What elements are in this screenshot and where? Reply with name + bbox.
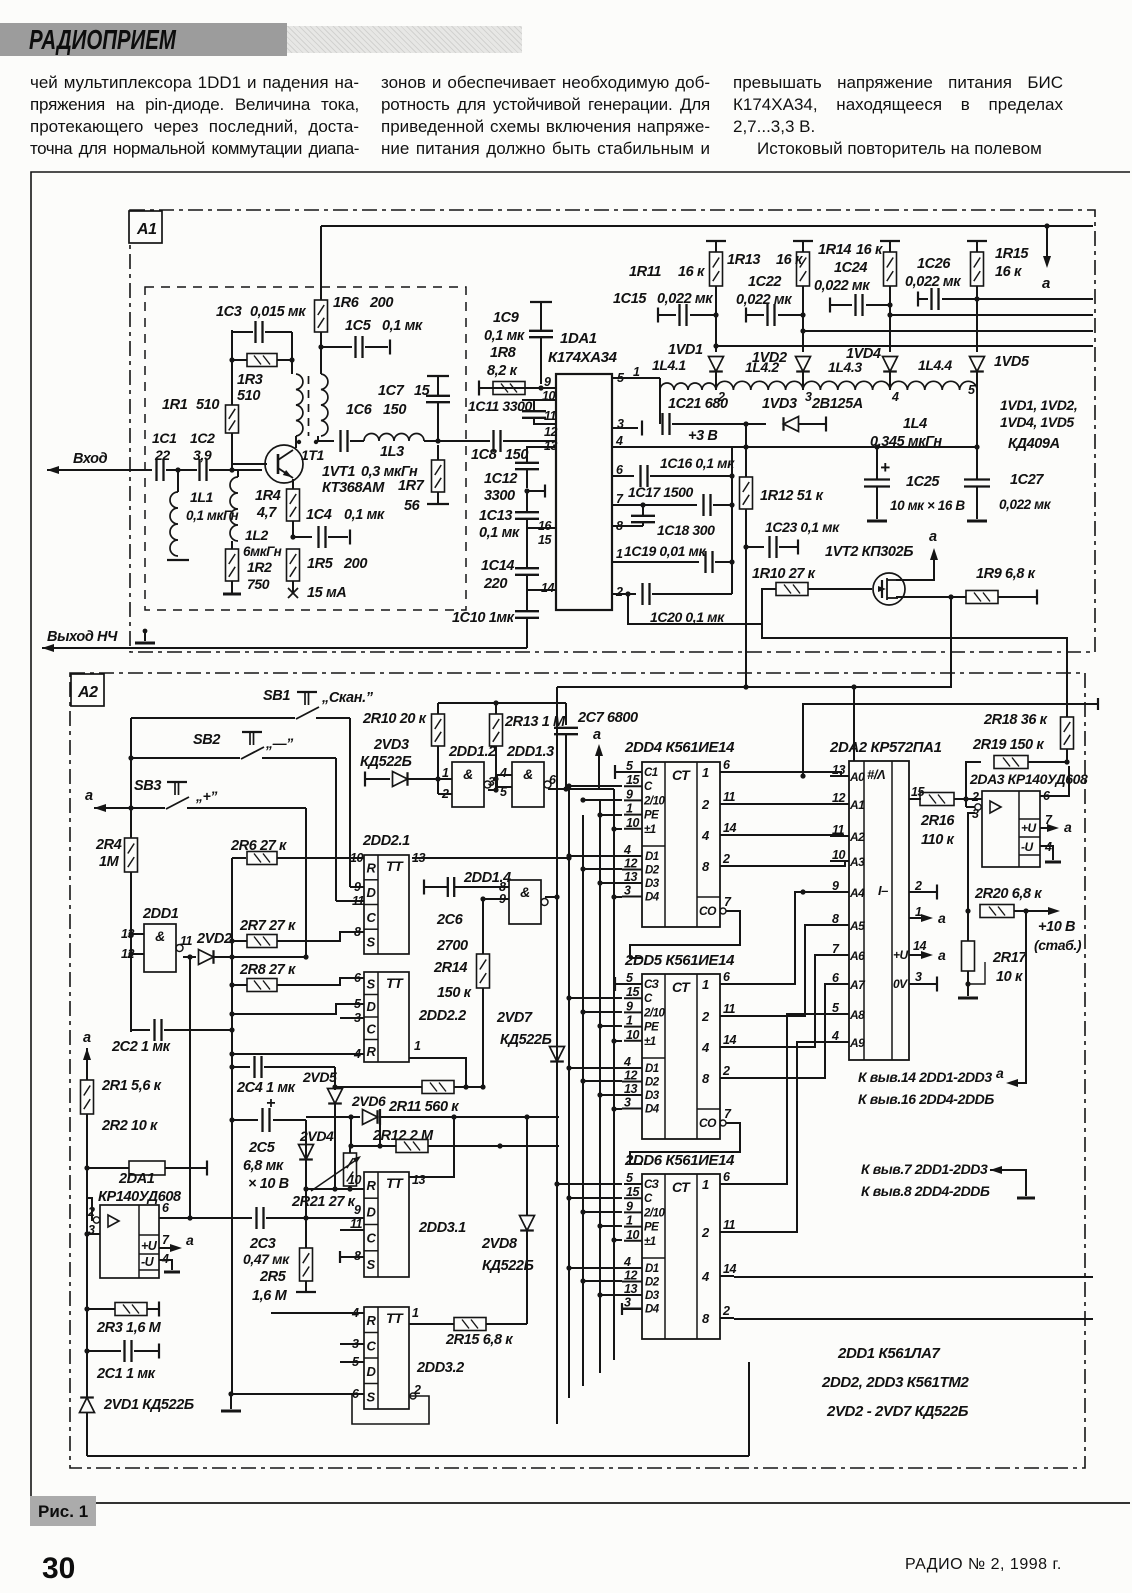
svg-text:1VD1: 1VD1 bbox=[668, 342, 703, 358]
svg-text:4: 4 bbox=[623, 1255, 631, 1269]
svg-text:С1: С1 bbox=[644, 767, 658, 779]
svg-text:СТ: СТ bbox=[672, 979, 691, 995]
wire y=704 to right edge bbox=[803, 704, 1098, 776]
svg-text:&: & bbox=[463, 766, 473, 782]
right varactor column down to 1C27 bbox=[976, 390, 978, 447]
svg-text:12: 12 bbox=[624, 1069, 637, 1083]
op amp 2DA1 output wire 2C3 bbox=[159, 1217, 252, 1219]
svg-text:1: 1 bbox=[412, 1306, 419, 1320]
svg-text:4: 4 bbox=[831, 1029, 839, 1043]
capacitor 1C25 10мк x 16В electrolytic bbox=[874, 444, 879, 449]
svg-text:А1: А1 bbox=[136, 221, 157, 238]
svg-text:9: 9 bbox=[626, 1199, 633, 1213]
page number bbox=[42, 1552, 75, 1586]
svg-text:10: 10 bbox=[350, 851, 363, 865]
left vertical bus columns to counters bbox=[556, 687, 558, 1424]
svg-text:К174ХА34: К174ХА34 bbox=[548, 349, 618, 366]
svg-text:1С8: 1С8 bbox=[471, 447, 498, 463]
svg-text:0,1 мк: 0,1 мк bbox=[484, 328, 525, 344]
svg-text:2R16: 2R16 bbox=[920, 813, 955, 829]
svg-text:1L4: 1L4 bbox=[903, 416, 927, 432]
svg-text:D: D bbox=[367, 1204, 377, 1219]
svg-text:±1: ±1 bbox=[644, 1236, 656, 1248]
svg-text:РЕ: РЕ bbox=[644, 1222, 659, 1234]
svg-text:2: 2 bbox=[413, 1383, 421, 1397]
svg-text:S: S bbox=[367, 976, 376, 991]
svg-text:1VD4, 1VD5: 1VD4, 1VD5 bbox=[1000, 414, 1074, 430]
svg-text:C: C bbox=[367, 1021, 377, 1036]
svg-text:0,1 мк: 0,1 мк bbox=[382, 318, 423, 334]
svg-text:8: 8 bbox=[702, 1311, 710, 1326]
svg-text:(стаб.): (стаб.) bbox=[1034, 937, 1082, 953]
svg-text:0,47 мк: 0,47 мк bbox=[243, 1251, 290, 1267]
svg-text:0V: 0V bbox=[893, 977, 908, 991]
svg-text:1R4: 1R4 bbox=[255, 488, 281, 504]
svg-text:a: a bbox=[1042, 275, 1050, 292]
svg-text:11: 11 bbox=[723, 1218, 736, 1232]
capacitor 1C14 220 bbox=[526, 528, 528, 568]
resistor 2R16 110к bbox=[920, 793, 954, 806]
svg-text:2R5: 2R5 bbox=[259, 1269, 287, 1285]
svg-text:С: С bbox=[644, 993, 653, 1005]
svg-text:ТТ: ТТ bbox=[386, 1175, 404, 1191]
decoupling bus vertical bbox=[731, 447, 733, 594]
svg-text:+: + bbox=[880, 458, 890, 477]
svg-text:D: D bbox=[367, 1364, 377, 1379]
svg-text:2С6: 2С6 bbox=[436, 912, 464, 928]
svg-text:С: С bbox=[644, 781, 653, 793]
inductor 1L3 bbox=[364, 434, 424, 441]
svg-text:13: 13 bbox=[624, 870, 637, 884]
svg-text:1R7: 1R7 bbox=[398, 478, 425, 494]
svg-text:D3: D3 bbox=[645, 878, 660, 890]
svg-text:11: 11 bbox=[544, 409, 557, 423]
svg-text:SB2: SB2 bbox=[193, 732, 220, 748]
svg-text:1С27: 1С27 bbox=[1010, 472, 1044, 488]
svg-text:2: 2 bbox=[914, 879, 922, 893]
svg-text:1С14: 1С14 bbox=[481, 558, 514, 574]
svg-text:2: 2 bbox=[722, 1304, 730, 1318]
svg-text:16 к: 16 к bbox=[995, 264, 1022, 280]
svg-text:4: 4 bbox=[891, 390, 899, 404]
emitter chain 1R4 4,7 bbox=[292, 479, 294, 489]
svg-text:2: 2 bbox=[701, 1009, 710, 1024]
drain wire with a arrow bbox=[896, 552, 934, 580]
svg-text:2R19 150 к: 2R19 150 к bbox=[972, 737, 1044, 753]
svg-text:2VD5: 2VD5 bbox=[302, 1069, 337, 1085]
svg-text:СТ: СТ bbox=[672, 767, 691, 783]
svg-text:1С5: 1С5 bbox=[345, 318, 372, 334]
collector coupling 1C6 150 bbox=[318, 436, 334, 441]
svg-text:6: 6 bbox=[723, 758, 731, 772]
svg-text:3: 3 bbox=[915, 970, 922, 984]
svg-text:7: 7 bbox=[162, 1233, 170, 1247]
svg-text:15: 15 bbox=[626, 773, 640, 787]
svg-text:56: 56 bbox=[404, 498, 421, 514]
svg-text:#/Λ: #/Λ bbox=[867, 767, 885, 782]
svg-text:1DA1: 1DA1 bbox=[560, 330, 597, 347]
svg-text:D3: D3 bbox=[645, 1090, 660, 1102]
svg-text:1С25: 1С25 bbox=[906, 474, 940, 490]
svg-text:1: 1 bbox=[442, 766, 449, 780]
inductor 1L1 bbox=[177, 470, 179, 492]
resistor 1R6 200 bbox=[320, 226, 322, 300]
capacitor 1C1 bbox=[155, 459, 157, 481]
svg-text:11: 11 bbox=[352, 894, 365, 908]
svg-text:0,022 мк: 0,022 мк bbox=[999, 497, 1052, 512]
svg-text:1: 1 bbox=[626, 802, 633, 816]
svg-text:1L4.1: 1L4.1 bbox=[652, 357, 686, 373]
svg-text:&: & bbox=[523, 766, 533, 782]
svg-text:1L3: 1L3 bbox=[380, 444, 404, 460]
svg-text:+U: +U bbox=[141, 1239, 158, 1253]
svg-text:14: 14 bbox=[723, 1262, 736, 1276]
svg-text:2: 2 bbox=[701, 1225, 710, 1240]
svg-text:1С15: 1С15 bbox=[613, 291, 647, 307]
svg-text:750: 750 bbox=[247, 576, 270, 592]
resistor 2R4 1М bbox=[125, 838, 138, 872]
svg-text:ТТ: ТТ bbox=[386, 1310, 404, 1326]
svg-text:C: C bbox=[367, 1231, 377, 1246]
svg-text:+10 В: +10 В bbox=[1038, 919, 1075, 935]
2DD1.4 output to bus bbox=[545, 896, 557, 898]
CO cascade 2DD5 to 2DD6 bbox=[630, 1123, 740, 1164]
band bus wires bbox=[713, 343, 718, 348]
svg-text:0,022 мк: 0,022 мк bbox=[814, 278, 870, 294]
svg-text:8: 8 bbox=[354, 925, 361, 939]
svg-text:16 к: 16 к bbox=[776, 252, 803, 268]
svg-text:10: 10 bbox=[626, 1028, 639, 1042]
svg-text:16 к: 16 к bbox=[678, 264, 705, 280]
resistor 1R12 51к bbox=[745, 447, 747, 477]
svg-text:2R12 2 М: 2R12 2 М bbox=[372, 1128, 434, 1144]
svg-text:D4: D4 bbox=[645, 1104, 660, 1116]
svg-text:D2: D2 bbox=[645, 865, 660, 877]
svg-text:9: 9 bbox=[354, 880, 361, 894]
svg-text:1С20 0,1 мк: 1С20 0,1 мк bbox=[650, 609, 725, 625]
svg-text:СТ: СТ bbox=[672, 1179, 691, 1195]
svg-text:6,8 мк: 6,8 мк bbox=[243, 1158, 284, 1174]
svg-text:15: 15 bbox=[626, 985, 640, 999]
svg-text:1R2: 1R2 bbox=[247, 559, 272, 575]
svg-text:150 к: 150 к bbox=[437, 985, 472, 1001]
svg-text:9: 9 bbox=[354, 1203, 361, 1217]
svg-text:1L2: 1L2 bbox=[245, 527, 269, 543]
svg-text:2DA1: 2DA1 bbox=[118, 1171, 155, 1187]
svg-text:6: 6 bbox=[723, 970, 731, 984]
op-amp feedback via 2R19 bbox=[966, 762, 981, 807]
svg-text:4: 4 bbox=[701, 1269, 710, 1284]
svg-text:D1: D1 bbox=[645, 1263, 659, 1275]
svg-text:10: 10 bbox=[626, 1228, 639, 1242]
svg-text:1R9 6,8 к: 1R9 6,8 к bbox=[976, 566, 1036, 582]
svg-text:8: 8 bbox=[702, 859, 710, 874]
svg-text:15: 15 bbox=[414, 383, 431, 399]
svg-text:КР140УД608: КР140УД608 bbox=[98, 1189, 182, 1205]
svg-text:R: R bbox=[367, 1313, 377, 1328]
Рис. 1 label bbox=[30, 1496, 96, 1526]
svg-text:1R8: 1R8 bbox=[490, 345, 517, 361]
svg-text:10: 10 bbox=[832, 848, 845, 862]
svg-text:1: 1 bbox=[414, 1039, 421, 1053]
svg-text:0,1 мк: 0,1 мк bbox=[479, 525, 520, 541]
2DD6 long output wires right bbox=[734, 1276, 1093, 1278]
svg-text:1С12: 1С12 bbox=[484, 471, 517, 487]
svg-text:0,022 мк: 0,022 мк bbox=[736, 292, 792, 308]
wire y=687 across A2 top bbox=[557, 686, 951, 688]
svg-text:I–: I– bbox=[878, 883, 888, 898]
svg-text:К выв.16 2DD4-2DDБ: К выв.16 2DD4-2DDБ bbox=[858, 1091, 994, 1107]
svg-text:0,1 мк: 0,1 мк bbox=[344, 507, 385, 523]
svg-text:1С6: 1С6 bbox=[346, 402, 373, 418]
svg-text:SB1: SB1 bbox=[263, 688, 290, 704]
svg-text:А3: А3 bbox=[849, 855, 865, 869]
svg-text:a: a bbox=[929, 529, 937, 545]
svg-text:А7: А7 bbox=[849, 978, 866, 992]
svg-text:1С3: 1С3 bbox=[216, 304, 242, 320]
SB1 wire down to 2DD2.1 D bbox=[349, 718, 351, 887]
transistor 1VT1 КТ368АМ bbox=[264, 464, 266, 470]
resistor 1R14 bbox=[880, 240, 900, 242]
svg-text:2R18 36 к: 2R18 36 к bbox=[983, 712, 1048, 728]
svg-text:А2: А2 bbox=[849, 830, 865, 844]
counter 2DD4 left stubs bbox=[569, 785, 622, 787]
svg-text:S: S bbox=[367, 935, 376, 950]
wire from 1R12 down bbox=[745, 652, 747, 687]
svg-text:6: 6 bbox=[549, 773, 557, 787]
svg-text:1,6 М: 1,6 М bbox=[252, 1288, 288, 1304]
svg-text:2R1 5,6 к: 2R1 5,6 к bbox=[101, 1078, 162, 1094]
svg-text:1С16 0,1 мк: 1С16 0,1 мк bbox=[660, 455, 735, 471]
svg-text:1Т1: 1Т1 bbox=[301, 447, 325, 463]
capacitor 1C13 0,1мк bbox=[526, 491, 528, 512]
svg-text:13: 13 bbox=[412, 1173, 425, 1187]
svg-text:150: 150 bbox=[383, 402, 406, 418]
1C20 wire to gate bbox=[628, 589, 776, 624]
svg-text:2: 2 bbox=[615, 585, 623, 599]
wire down to 2R18 bbox=[762, 624, 1067, 717]
svg-text:2VD1 КД522Б: 2VD1 КД522Б bbox=[103, 1397, 194, 1413]
svg-text:R: R bbox=[367, 860, 377, 875]
svg-text:4: 4 bbox=[615, 434, 623, 448]
svg-text:a: a bbox=[1064, 819, 1072, 835]
svg-text:3,9: 3,9 bbox=[193, 447, 212, 463]
svg-text:2R21 27 к: 2R21 27 к bbox=[291, 1194, 356, 1210]
svg-text:11: 11 bbox=[723, 790, 736, 804]
svg-text:„Скан.”: „Скан.” bbox=[321, 690, 374, 706]
svg-text:1С1: 1С1 bbox=[152, 430, 177, 446]
svg-text:110 к: 110 к bbox=[921, 832, 955, 848]
counter 2DD6 outputs to DAC A8 A9 bbox=[734, 1014, 849, 1184]
svg-text:±1: ±1 bbox=[644, 824, 656, 836]
svg-text:a: a bbox=[83, 1030, 91, 1046]
svg-text:2/10: 2/10 bbox=[643, 1007, 665, 1019]
svg-text:1VD5: 1VD5 bbox=[994, 354, 1030, 370]
svg-text:7: 7 bbox=[724, 1107, 732, 1121]
SB3 wire down to 2VD2 row bbox=[305, 808, 307, 957]
svg-text:СО: СО bbox=[699, 904, 717, 918]
svg-text:&: & bbox=[520, 884, 530, 900]
svg-text:6мкГн: 6мкГн bbox=[243, 544, 282, 559]
2DD3.2 S row wire with ground bbox=[231, 1393, 364, 1395]
transformer 1T1 bbox=[291, 332, 293, 374]
2DD2.2 pin1 wire to 2R11 row bbox=[409, 1058, 466, 1087]
svg-text:1VT1: 1VT1 bbox=[322, 464, 355, 480]
svg-text:D2: D2 bbox=[645, 1077, 660, 1089]
bottom long wire bbox=[87, 1455, 749, 1457]
svg-text:2R11 560 к: 2R11 560 к bbox=[388, 1099, 459, 1115]
svg-text:15: 15 bbox=[538, 533, 552, 547]
svg-text:16: 16 bbox=[538, 519, 552, 533]
svg-text:10 к: 10 к bbox=[996, 969, 1023, 985]
svg-text:КД522Б: КД522Б bbox=[500, 1032, 552, 1048]
svg-text:15 мА: 15 мА bbox=[307, 585, 346, 601]
wire 1R12 down to source of 1VT2 bbox=[746, 547, 951, 687]
svg-text:R: R bbox=[367, 1044, 377, 1059]
svg-text:220: 220 bbox=[483, 576, 507, 592]
svg-text:a: a bbox=[186, 1232, 194, 1248]
svg-text:1R1: 1R1 bbox=[162, 397, 188, 413]
svg-text:1С9: 1С9 bbox=[493, 310, 519, 326]
svg-text:2DD3.1: 2DD3.1 bbox=[418, 1220, 466, 1236]
svg-text:2VD8: 2VD8 bbox=[481, 1236, 518, 1252]
capacitor 1C10 1мк bbox=[526, 590, 528, 611]
svg-text:D1: D1 bbox=[645, 851, 659, 863]
svg-text:1С13: 1С13 bbox=[479, 508, 512, 524]
svg-text:× 10 В: × 10 В bbox=[248, 1176, 289, 1192]
svg-text:А5: А5 bbox=[849, 919, 865, 933]
counter output wires to DAC A0-A3 bbox=[734, 772, 849, 776]
svg-text:-U: -U bbox=[141, 1255, 155, 1269]
svg-text:1С18 300: 1С18 300 bbox=[657, 522, 715, 538]
svg-text:3: 3 bbox=[805, 390, 812, 404]
capacitor 1C7 15 bbox=[437, 403, 439, 441]
svg-text:1R3: 1R3 bbox=[237, 372, 263, 388]
svg-text:1С26: 1С26 bbox=[917, 256, 951, 272]
wire down to DAC top bbox=[853, 687, 855, 761]
svg-text:1R15: 1R15 bbox=[995, 246, 1029, 262]
oscillator inner dashed box bbox=[145, 287, 466, 610]
diode 1VD1 bbox=[709, 357, 724, 372]
resistor 1R3 510 bbox=[229, 357, 234, 362]
svg-text:2700: 2700 bbox=[436, 938, 468, 954]
svg-text:2С5: 2С5 bbox=[248, 1140, 276, 1156]
long left bus column x=232 bbox=[231, 858, 233, 1394]
resistor 2R20 6,8к bbox=[980, 905, 1014, 918]
counter 2DD6 D4 tied bbox=[621, 1303, 623, 1315]
svg-text:1С10 1мк: 1С10 1мк bbox=[452, 610, 515, 626]
svg-text:1: 1 bbox=[626, 1014, 633, 1028]
svg-text:2: 2 bbox=[701, 797, 710, 812]
2DD3.1 pin13 wire up to 2R11 row bbox=[409, 1117, 454, 1177]
resistor 1R11 bbox=[706, 240, 726, 242]
svg-text:D3: D3 bbox=[645, 1290, 660, 1302]
2DD2.2 R row from bus bbox=[232, 1053, 364, 1055]
footer journal bbox=[905, 1556, 1062, 1574]
svg-text:9: 9 bbox=[626, 787, 633, 801]
text column 1 bbox=[30, 72, 359, 160]
svg-text:2VD2 - 2VD7 КД522Б: 2VD2 - 2VD7 КД522Б bbox=[826, 1403, 969, 1420]
switch bus verticals bbox=[130, 718, 132, 838]
svg-text:1С21 680: 1С21 680 bbox=[668, 396, 728, 412]
svg-text:4: 4 bbox=[701, 828, 710, 843]
svg-text:2R17: 2R17 bbox=[992, 950, 1027, 966]
svg-text:1: 1 bbox=[633, 365, 640, 379]
svg-text:4,7: 4,7 bbox=[256, 505, 277, 521]
svg-text:12: 12 bbox=[624, 857, 637, 871]
svg-text:2DD5 К561ИЕ14: 2DD5 К561ИЕ14 bbox=[624, 952, 735, 969]
svg-text:D1: D1 bbox=[645, 1063, 659, 1075]
a arrow up near 2C7 bbox=[598, 748, 600, 789]
svg-text:13: 13 bbox=[624, 1082, 637, 1096]
svg-text:1: 1 bbox=[702, 977, 709, 992]
svg-text:1С19 0,01 мк: 1С19 0,01 мк bbox=[624, 543, 706, 559]
resistor 1R13 bbox=[793, 240, 813, 242]
svg-text:510: 510 bbox=[237, 388, 260, 404]
svg-text:200: 200 bbox=[343, 556, 367, 572]
svg-text:5: 5 bbox=[626, 759, 634, 773]
svg-text:А0: А0 bbox=[849, 770, 865, 784]
capacitor 1C27 0,022мк bbox=[976, 447, 978, 479]
svg-text:13: 13 bbox=[832, 763, 845, 777]
svg-text:+U: +U bbox=[1021, 821, 1037, 835]
svg-text:1: 1 bbox=[915, 905, 922, 919]
svg-text:22: 22 bbox=[154, 447, 170, 463]
svg-text:1С2: 1С2 bbox=[190, 430, 215, 446]
svg-text:2DD4 К561ИЕ14: 2DD4 К561ИЕ14 bbox=[624, 739, 735, 756]
svg-text:2R10 20 к: 2R10 20 к bbox=[362, 711, 427, 727]
capacitor 1C12 3300 bbox=[515, 462, 539, 464]
top rail wire to a bbox=[320, 226, 322, 300]
svg-text:2В125А: 2В125А bbox=[811, 396, 863, 412]
svg-text:3300: 3300 bbox=[484, 488, 515, 504]
diode 1VD2 bbox=[796, 357, 811, 372]
svg-text:1VD1, 1VD2,: 1VD1, 1VD2, bbox=[1000, 397, 1077, 413]
svg-text:11: 11 bbox=[180, 934, 193, 948]
svg-text:2R15 6,8 к: 2R15 6,8 к bbox=[445, 1332, 513, 1348]
svg-text:2С4 1 мк: 2С4 1 мк bbox=[236, 1080, 296, 1096]
svg-text:S: S bbox=[367, 1257, 376, 1272]
svg-text:a: a bbox=[938, 947, 946, 963]
svg-text:1С7: 1С7 bbox=[378, 383, 405, 399]
svg-text:2DD1 К561ЛА7: 2DD1 К561ЛА7 bbox=[837, 1345, 941, 1362]
svg-text:12: 12 bbox=[832, 791, 845, 805]
svg-text:8,2 к: 8,2 к bbox=[487, 363, 518, 379]
svg-text:2R2 10 к: 2R2 10 к bbox=[101, 1118, 158, 1134]
svg-text:7: 7 bbox=[616, 492, 624, 506]
svg-text:R: R bbox=[367, 1178, 377, 1193]
svg-text:К выв.14 2DD1-2DD3: К выв.14 2DD1-2DD3 bbox=[858, 1069, 992, 1085]
svg-text:Выход НЧ: Выход НЧ bbox=[47, 629, 118, 645]
counter 2DD5 left stubs bbox=[569, 997, 622, 999]
svg-text:1М: 1М bbox=[99, 854, 120, 870]
svg-text:14: 14 bbox=[913, 939, 926, 953]
svg-text:200: 200 bbox=[369, 295, 393, 311]
svg-text:1С17 1500: 1С17 1500 bbox=[628, 484, 694, 500]
text column 2 bbox=[381, 72, 710, 160]
svg-text:„+”: „+” bbox=[195, 788, 217, 804]
svg-text:А1: А1 bbox=[849, 798, 865, 812]
svg-text:2VD4: 2VD4 bbox=[299, 1128, 334, 1144]
svg-text:2/10: 2/10 bbox=[643, 1207, 665, 1219]
source wire to 1R9 bbox=[896, 596, 966, 598]
svg-text:2R4: 2R4 bbox=[95, 837, 122, 853]
svg-text:2DD1.2: 2DD1.2 bbox=[448, 744, 496, 760]
bottom rule line bbox=[96, 1502, 1130, 1504]
svg-text:2R14: 2R14 bbox=[433, 960, 467, 976]
resistor 1R15 bbox=[967, 240, 987, 242]
svg-text:150: 150 bbox=[505, 447, 528, 463]
